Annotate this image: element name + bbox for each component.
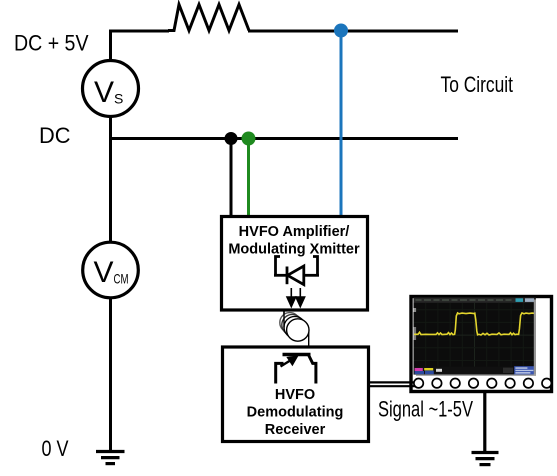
fiber optic coil <box>280 311 309 347</box>
node: green junction dot on DC line <box>242 132 256 146</box>
oscilloscope body <box>411 297 552 392</box>
oscilloscope knobs <box>414 379 552 388</box>
screen status bar <box>414 367 536 375</box>
oscilloscope screen <box>414 298 537 377</box>
wire: top horizontal right segment to circuit <box>248 30 458 33</box>
wire: twin signal leads to oscilloscope <box>368 381 420 383</box>
svg-text:Receiver: Receiver <box>265 422 326 438</box>
LED D1 (transmitter diode) <box>274 257 319 285</box>
svg-text:Signal ~1-5V: Signal ~1-5V <box>378 397 473 422</box>
phototransistor emitter arrow <box>281 356 298 367</box>
screen graticule grid <box>414 303 536 367</box>
box U2: HVFO Demodulating Receiver <box>223 347 369 442</box>
screen trigger level marks <box>414 308 417 312</box>
voltage source Vcm <box>83 242 139 298</box>
wire: left vertical from top corner to Vs <box>109 30 112 62</box>
wire: blue vertical from +5V line to Xmitter box <box>340 31 343 218</box>
screen edge shade <box>534 300 536 376</box>
svg-text:DC + 5V: DC + 5V <box>14 31 89 56</box>
svg-text:0 V: 0 V <box>42 436 69 461</box>
waveform trace <box>414 313 535 335</box>
wire: DC horizontal line <box>109 137 458 140</box>
svg-text:DC: DC <box>39 123 71 148</box>
voltage source Vs <box>83 61 139 117</box>
resistor R1 <box>168 5 249 31</box>
ground (left) <box>96 452 125 464</box>
node: blue junction dot on +5V line <box>334 24 348 38</box>
ground (right) <box>472 453 499 465</box>
wire: top horizontal left segment <box>109 30 169 33</box>
wire: scope to ground <box>483 391 486 452</box>
box U1: HVFO Amplifier / Modulating Xmitter <box>222 217 368 311</box>
wire: Vs to DC line and down to Vcm <box>109 116 112 243</box>
node: black junction dot on DC line <box>225 132 238 145</box>
wire: green vertical from DC line to Xmitter box <box>247 139 250 218</box>
screen menu bar <box>414 298 536 303</box>
LED light arrows <box>287 288 305 307</box>
phototransistor Q1 <box>276 355 316 384</box>
svg-text:Demodulating: Demodulating <box>247 405 344 421</box>
wire: black vertical from DC line to Xmitter box <box>230 139 233 218</box>
wire: Vcm down to ground <box>109 298 112 452</box>
svg-text:Modulating Xmitter: Modulating Xmitter <box>228 242 360 258</box>
svg-text:To Circuit: To Circuit <box>441 72 514 97</box>
svg-text:HVFO Amplifier/: HVFO Amplifier/ <box>239 224 350 240</box>
svg-text:HVFO: HVFO <box>275 387 315 403</box>
